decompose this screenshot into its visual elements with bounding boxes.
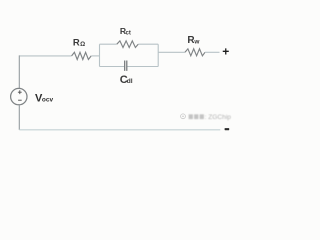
wire: left vertical upper (corner to source top) bbox=[18, 55, 20, 88]
resistor R_ct zigzag on top branch bbox=[117, 41, 138, 48]
svg-text:w: w bbox=[193, 38, 200, 45]
wire: R_w to positive terminal bbox=[205, 51, 220, 53]
label V_ocv bbox=[35, 92, 53, 104]
resistor R_w zigzag bbox=[185, 49, 205, 56]
wire: bottom rail bbox=[19, 129, 220, 131]
wire: left vertical lower (source bottom to bottom rail) bbox=[18, 105, 20, 130]
RC parallel block frame (left, right, top partial, bottom partial edges) bbox=[100, 44, 159, 66]
svg-text:R: R bbox=[73, 38, 80, 49]
wire: top horizontal from source corner to R_omega bbox=[19, 55, 71, 57]
capacitor C_dl plates on bottom branch bbox=[125, 61, 127, 71]
wire: R_omega to RC block bbox=[91, 55, 99, 57]
node: negative terminal - bbox=[225, 128, 230, 130]
label R_omega bbox=[73, 38, 85, 49]
svg-text:Ω: Ω bbox=[80, 41, 85, 48]
wire: RC block to R_w bbox=[158, 51, 185, 53]
svg-text:ocv: ocv bbox=[42, 97, 54, 104]
resistor R_omega zigzag bbox=[72, 52, 92, 59]
svg-text:+: + bbox=[222, 45, 229, 59]
svg-text:ct: ct bbox=[126, 30, 131, 36]
svg-text:: ZGChip: : ZGChip bbox=[205, 114, 232, 121]
label C_dl bbox=[120, 74, 133, 86]
watermark text 微信号: ZGChip bbox=[189, 114, 232, 121]
node: positive terminal + bbox=[222, 45, 229, 59]
label R_ct bbox=[120, 26, 131, 36]
svg-text:dl: dl bbox=[127, 78, 133, 85]
label R_w bbox=[187, 35, 200, 46]
watermark icon bbox=[181, 114, 186, 119]
voltage source V_ocv circle bbox=[11, 88, 27, 104]
